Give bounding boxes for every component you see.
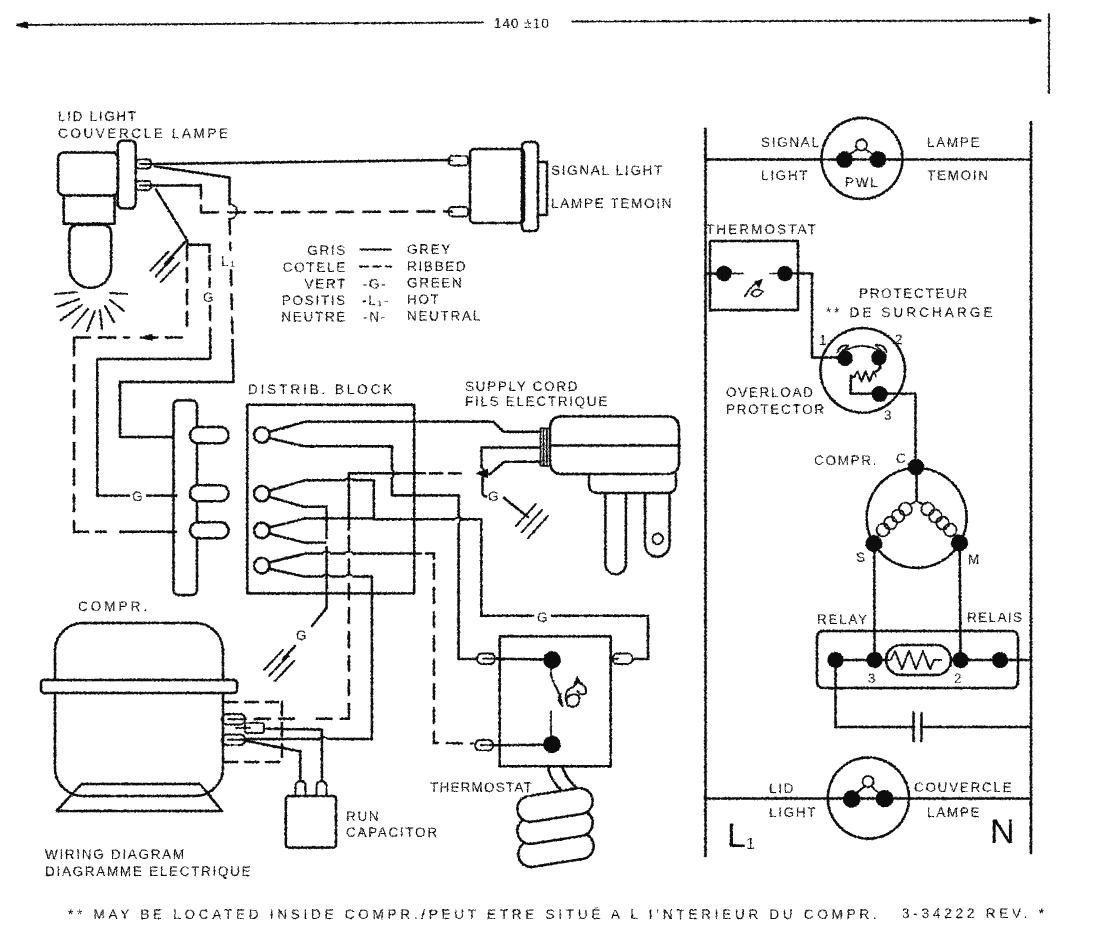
svg-text:3: 3 (884, 408, 893, 423)
supply cord plug body (550, 416, 679, 474)
lid light fixture: socket body (58, 153, 118, 196)
lid light terminal (top) (136, 160, 155, 169)
svg-text:COTELE: COTELE (283, 260, 347, 275)
ground (near compressor) (264, 650, 294, 681)
wire: capacitor to right rail (924, 726, 1032, 729)
wire: G into strip tab 2 (147, 494, 176, 497)
signal light fixture: plate (522, 142, 538, 231)
plug lower lobe (589, 474, 676, 493)
wire: L1 dashed drop continued (231, 270, 233, 340)
wire: relay left pin down to run capacitor branch (836, 667, 912, 727)
thermostat terminal top-left (477, 654, 500, 665)
svg-text:RIBBED: RIBBED (407, 259, 467, 274)
svg-text:** DE SURCHARGE: ** DE SURCHARGE (826, 305, 996, 320)
terminal strip tab 3 (190, 522, 229, 538)
svg-text:FILS ELECTRIQUE: FILS ELECTRIQUE (465, 394, 609, 409)
compressor flange (41, 680, 237, 693)
compressor body (55, 623, 223, 796)
wire: T2 to run capacitor right (264, 729, 322, 779)
svg-text:GREY: GREY (407, 242, 452, 257)
svg-text:WIRING DIAGRAM: WIRING DIAGRAM (45, 847, 186, 862)
thermostat open gap line (550, 712, 552, 737)
svg-text:L₁: L₁ (221, 254, 236, 269)
run capacitor terminal (left) (296, 781, 306, 795)
wire: ladder left rail L1 (704, 129, 707, 856)
dashed enclosure around terminals (224, 702, 282, 765)
thermostat contact upper (545, 653, 560, 668)
svg-text:M: M (968, 552, 981, 567)
wire: junction to ground symbol (165, 240, 187, 264)
svg-text:1: 1 (746, 836, 755, 853)
dimension line 140 +/-10 (17, 14, 1049, 93)
svg-text:OVERLOAD: OVERLOAD (726, 385, 815, 400)
compressor terminal T3 (222, 735, 245, 746)
svg-text:GREEN: GREEN (407, 276, 464, 291)
wire: S to relay pin 3 (873, 551, 876, 653)
ground (supply cord) (516, 504, 548, 538)
svg-text:PROTECTOR: PROTECTOR (726, 402, 826, 417)
wire: L1 dashed drop (230, 219, 231, 250)
wire: C3 lower to ground drop (304, 541, 325, 544)
wire: lid light top terminal to signal light (grey) (153, 160, 448, 164)
wire: ribbed dashed wire to signal light (201, 212, 448, 213)
lid light fixture: bulb (69, 225, 111, 288)
distribution block terminal C1 (254, 427, 269, 442)
wire: M to relay pin 2 (958, 550, 961, 653)
svg-text:COUVERCLE LAMPE: COUVERCLE LAMPE (58, 126, 231, 141)
svg-text:140 ±10: 140 ±10 (494, 16, 550, 31)
svg-text:G: G (132, 489, 144, 504)
wire: G to ground slashes (283, 646, 295, 659)
svg-text:S: S (856, 550, 867, 565)
wire: C1 lower to thermostat left (304, 446, 392, 469)
svg-text:PROTECTEUR: PROTECTEUR (859, 286, 969, 301)
overload protector (820, 328, 905, 413)
svg-text:LAMPE TEMOIN: LAMPE TEMOIN (551, 196, 673, 211)
svg-text:COUVERCLE: COUVERCLE (914, 780, 1013, 795)
svg-text:G: G (537, 610, 549, 625)
lid light fixture: neck (64, 196, 115, 224)
supply cord junction arrow (477, 469, 488, 477)
thermostat capillary tube (548, 766, 562, 791)
plug body mid line (550, 444, 679, 447)
wire: C1 hot to supply cord (305, 420, 493, 423)
svg-text:SIGNAL LIGHT: SIGNAL LIGHT (551, 163, 664, 178)
compressor terminal T2 (236, 723, 264, 733)
svg-text:RELAIS: RELAIS (967, 610, 1023, 625)
compressor terminal T1 (222, 714, 245, 725)
wire hop over ribbed wire (230, 204, 238, 219)
supply cord sheath taper (493, 422, 541, 432)
plug prong (left) (605, 493, 626, 574)
wire: C2 lower to ground drop (304, 507, 327, 538)
svg-text:G: G (488, 489, 500, 504)
wire: neutral to strip tab 3 (74, 530, 106, 533)
svg-text:TEMOIN: TEMOIN (927, 168, 990, 183)
wire: C2 fork (269, 480, 305, 507)
wire: C4 upper to L1 dashed drop (thermostat) (305, 552, 322, 555)
svg-text:DIAGRAMME ELECTRIQUE: DIAGRAMME ELECTRIQUE (45, 864, 252, 879)
thermostat contact lower (545, 737, 560, 752)
distribution block box (247, 405, 414, 594)
svg-text:-L₁-: -L₁- (362, 293, 390, 308)
wire: supply cord green to compressor shell vb (349, 472, 425, 475)
relay (817, 631, 1031, 688)
wire: branch from top terminal down to L1 (155, 167, 230, 205)
svg-text:HOT: HOT (407, 292, 441, 307)
distribution block terminal C2 (254, 486, 269, 501)
wire: G drop continued (209, 306, 212, 340)
signal light fixture: body (470, 149, 524, 223)
svg-text:** MAY BE LOCATED INSIDE COMPR: ** MAY BE LOCATED INSIDE COMPR./PEUT ETR… (68, 907, 880, 922)
wire: lid light bottom terminal loop (153, 184, 201, 187)
wire: neutral dashed vertical (73, 339, 76, 532)
thermostat coil loop 2 (515, 808, 594, 846)
wire: neutral dashed horizontal (74, 336, 189, 339)
svg-text:THERMOSTAT: THERMOSTAT (706, 222, 818, 237)
wire: ladder right rail N (1030, 122, 1033, 853)
svg-text:L: L (727, 817, 746, 855)
compressor base (57, 784, 223, 811)
ground (lid light) (150, 252, 179, 282)
svg-text:3: 3 (868, 671, 877, 686)
lid light fixture: mounting plate (118, 141, 136, 209)
svg-text:THERMOSTAT: THERMOSTAT (430, 780, 533, 795)
svg-text:LIGHT: LIGHT (761, 168, 809, 183)
signal light terminal (top) (444, 156, 468, 166)
distribution block terminal C3 (254, 523, 269, 538)
svg-text:G: G (203, 290, 215, 305)
svg-text:COMPR.: COMPR. (814, 453, 878, 468)
svg-text:-G-: -G- (363, 277, 388, 292)
svg-text:C: C (896, 451, 907, 466)
wire: neutral dashed drop from junction (186, 246, 189, 334)
svg-text:RELAY: RELAY (817, 612, 869, 627)
svg-text:VERT: VERT (304, 277, 347, 292)
compressor motor (schematic) (867, 460, 967, 568)
thermostat coil loop 3 (516, 831, 595, 869)
capacitor (schematic) (914, 713, 922, 741)
terminal strip tab 1 (190, 427, 229, 443)
thermostat terminal bottom-left (475, 740, 500, 751)
svg-text:NEUTRE: NEUTRE (281, 310, 347, 325)
terminal strip tab 2 (190, 485, 229, 501)
wire: C4 fork (269, 554, 305, 577)
run capacitor terminal (right) (317, 781, 327, 795)
thermostat fixture box (500, 636, 611, 766)
svg-text:2: 2 (954, 671, 963, 686)
plug prong (right, with hole) (645, 493, 670, 557)
wire: branch from bottom terminal to ground junction (156, 190, 187, 241)
wire: cord green stub to G label (483, 478, 487, 497)
svg-text:LAMPE: LAMPE (927, 805, 981, 820)
svg-text:SUPPLY CORD: SUPPLY CORD (465, 379, 579, 394)
svg-text:-N-: -N- (363, 310, 387, 325)
thermostat switch arm squiggle (551, 668, 586, 707)
svg-text:COMPR.: COMPR. (78, 599, 150, 614)
wire: spades to contacts (493, 659, 545, 746)
svg-text:N: N (990, 813, 1015, 851)
wire: C2 green to thermostat right (305, 479, 344, 482)
lid light terminal (bottom) (136, 181, 155, 190)
wire: thermostat to overload pin 1 (791, 274, 838, 358)
svg-text:PWL: PWL (845, 175, 879, 190)
wire: G to ground slashes (cord) (504, 498, 528, 517)
wire: bottom rung (lid light rung) (706, 797, 1032, 800)
svg-text:LIGHT: LIGHT (769, 805, 817, 820)
svg-text:RUN: RUN (346, 809, 380, 824)
lid light rays (55, 292, 127, 331)
wire: C3 fork (269, 518, 305, 542)
svg-text:2: 2 (895, 332, 904, 347)
svg-text:POSITIS: POSITIS (282, 293, 347, 308)
run capacitor box (286, 796, 336, 848)
svg-text:NEUTRAL: NEUTRAL (407, 309, 482, 324)
distribution block terminal C4 (254, 558, 269, 573)
thermostat coil loop 1 (515, 786, 594, 824)
svg-text:GRIS: GRIS (307, 243, 347, 258)
svg-text:G: G (296, 628, 308, 643)
svg-text:SIGNAL: SIGNAL (761, 135, 821, 150)
supply cord ferrule (541, 428, 551, 466)
wire: top rung (signal light rung) (706, 158, 1032, 161)
wire: C3 upper to junction (305, 517, 372, 520)
thermostat terminal right (610, 654, 633, 665)
wire: C4 lower to compressor T3 (304, 575, 322, 578)
lid light lamp (schematic) (828, 758, 909, 839)
wire: T3 to run capacitor left (245, 741, 300, 779)
svg-text:LID: LID (769, 781, 795, 796)
signal light lamp PWL (822, 118, 903, 199)
wire: C1 fork (269, 422, 305, 447)
thermostat switch (schematic) (706, 241, 799, 310)
terminal strip bar (174, 400, 198, 595)
wire: junction to G drop (187, 240, 210, 252)
svg-text:3-34222 REV. *: 3-34222 REV. * (902, 906, 1048, 921)
wire: overload pin 3 to compressor C (886, 394, 916, 460)
svg-text:LID LIGHT: LID LIGHT (58, 109, 138, 124)
svg-text:1: 1 (819, 333, 828, 348)
signal light terminal (bottom) (444, 207, 468, 217)
svg-text:LAMPE: LAMPE (927, 135, 981, 150)
signal light fixture: bracket (538, 162, 547, 215)
svg-text:CAPACITOR: CAPACITOR (346, 825, 439, 840)
svg-text:DISTRIB. BLOCK: DISTRIB. BLOCK (248, 382, 395, 397)
